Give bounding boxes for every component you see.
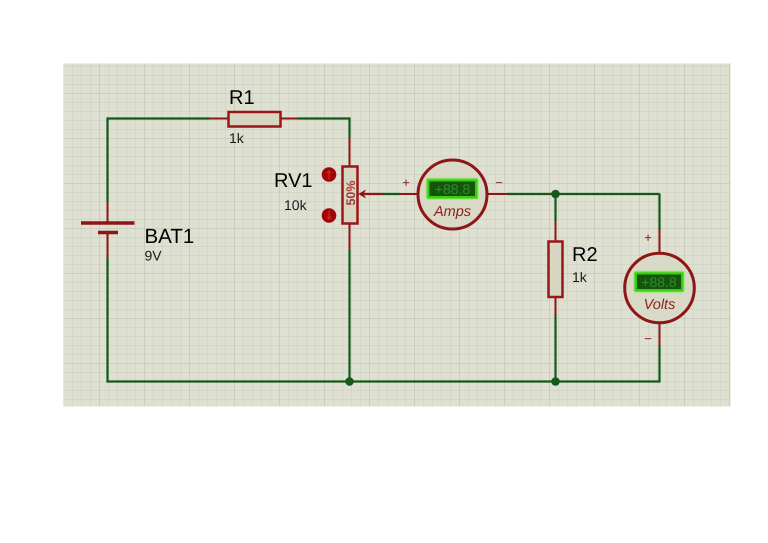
wire voltmeter vertical top <box>658 194 660 231</box>
svg-text:R1: R1 <box>229 87 255 109</box>
wire bottom rail <box>107 380 661 382</box>
svg-text:+: + <box>402 175 410 190</box>
svg-text:10k: 10k <box>284 197 308 213</box>
wire R2 top green <box>554 194 556 221</box>
svg-text:Amps: Amps <box>433 204 471 220</box>
wire junction to voltmeter corner <box>555 193 660 195</box>
voltmeter U-Volts <box>625 230 695 345</box>
svg-text:RV1: RV1 <box>274 170 313 192</box>
schematic canvas background <box>64 64 731 407</box>
svg-text:BAT1: BAT1 <box>145 225 195 248</box>
svg-text:R2: R2 <box>572 244 598 266</box>
svg-text:Volts: Volts <box>644 297 676 313</box>
svg-text:9V: 9V <box>145 248 163 264</box>
wire left vertical upper (corner to battery +) <box>106 118 108 203</box>
wire wiper to ammeter <box>382 193 400 195</box>
wire RV1 bottom vertical <box>348 250 350 382</box>
wire top-right horizontal (R1 to RV1 corner) <box>298 117 351 119</box>
wire left vertical lower (battery - to bottom rail) <box>106 258 108 383</box>
RV1 increment button <box>322 167 337 182</box>
svg-text:+88.8: +88.8 <box>641 274 677 290</box>
svg-text:1k: 1k <box>572 269 588 285</box>
svg-text:1k: 1k <box>229 130 245 146</box>
svg-text:−: − <box>644 331 652 346</box>
wire RV1 top vertical <box>348 118 350 138</box>
node junction at R2 top <box>551 190 560 199</box>
wire R2 bottom green <box>554 315 556 382</box>
wire top-left horizontal (battery to R1) <box>107 117 211 119</box>
node junction RV1 bottom rail <box>345 377 354 386</box>
resistor R2 <box>549 221 563 315</box>
potentiometer RV1 <box>343 137 359 250</box>
wire ammeter to junction node <box>507 193 556 195</box>
RV1 decrement button <box>322 208 337 223</box>
ammeter U-Amps <box>400 160 507 229</box>
resistor R1 <box>210 112 298 127</box>
svg-text:−: − <box>495 175 503 190</box>
svg-text:+88.8: +88.8 <box>435 181 471 197</box>
svg-text:50%: 50% <box>344 180 358 205</box>
node junction R2 bottom rail <box>551 377 560 386</box>
RV1 wiper arrow <box>358 190 382 199</box>
wire voltmeter vertical bottom <box>658 345 660 383</box>
battery BAT1 <box>81 202 135 258</box>
svg-text:+: + <box>644 230 652 245</box>
